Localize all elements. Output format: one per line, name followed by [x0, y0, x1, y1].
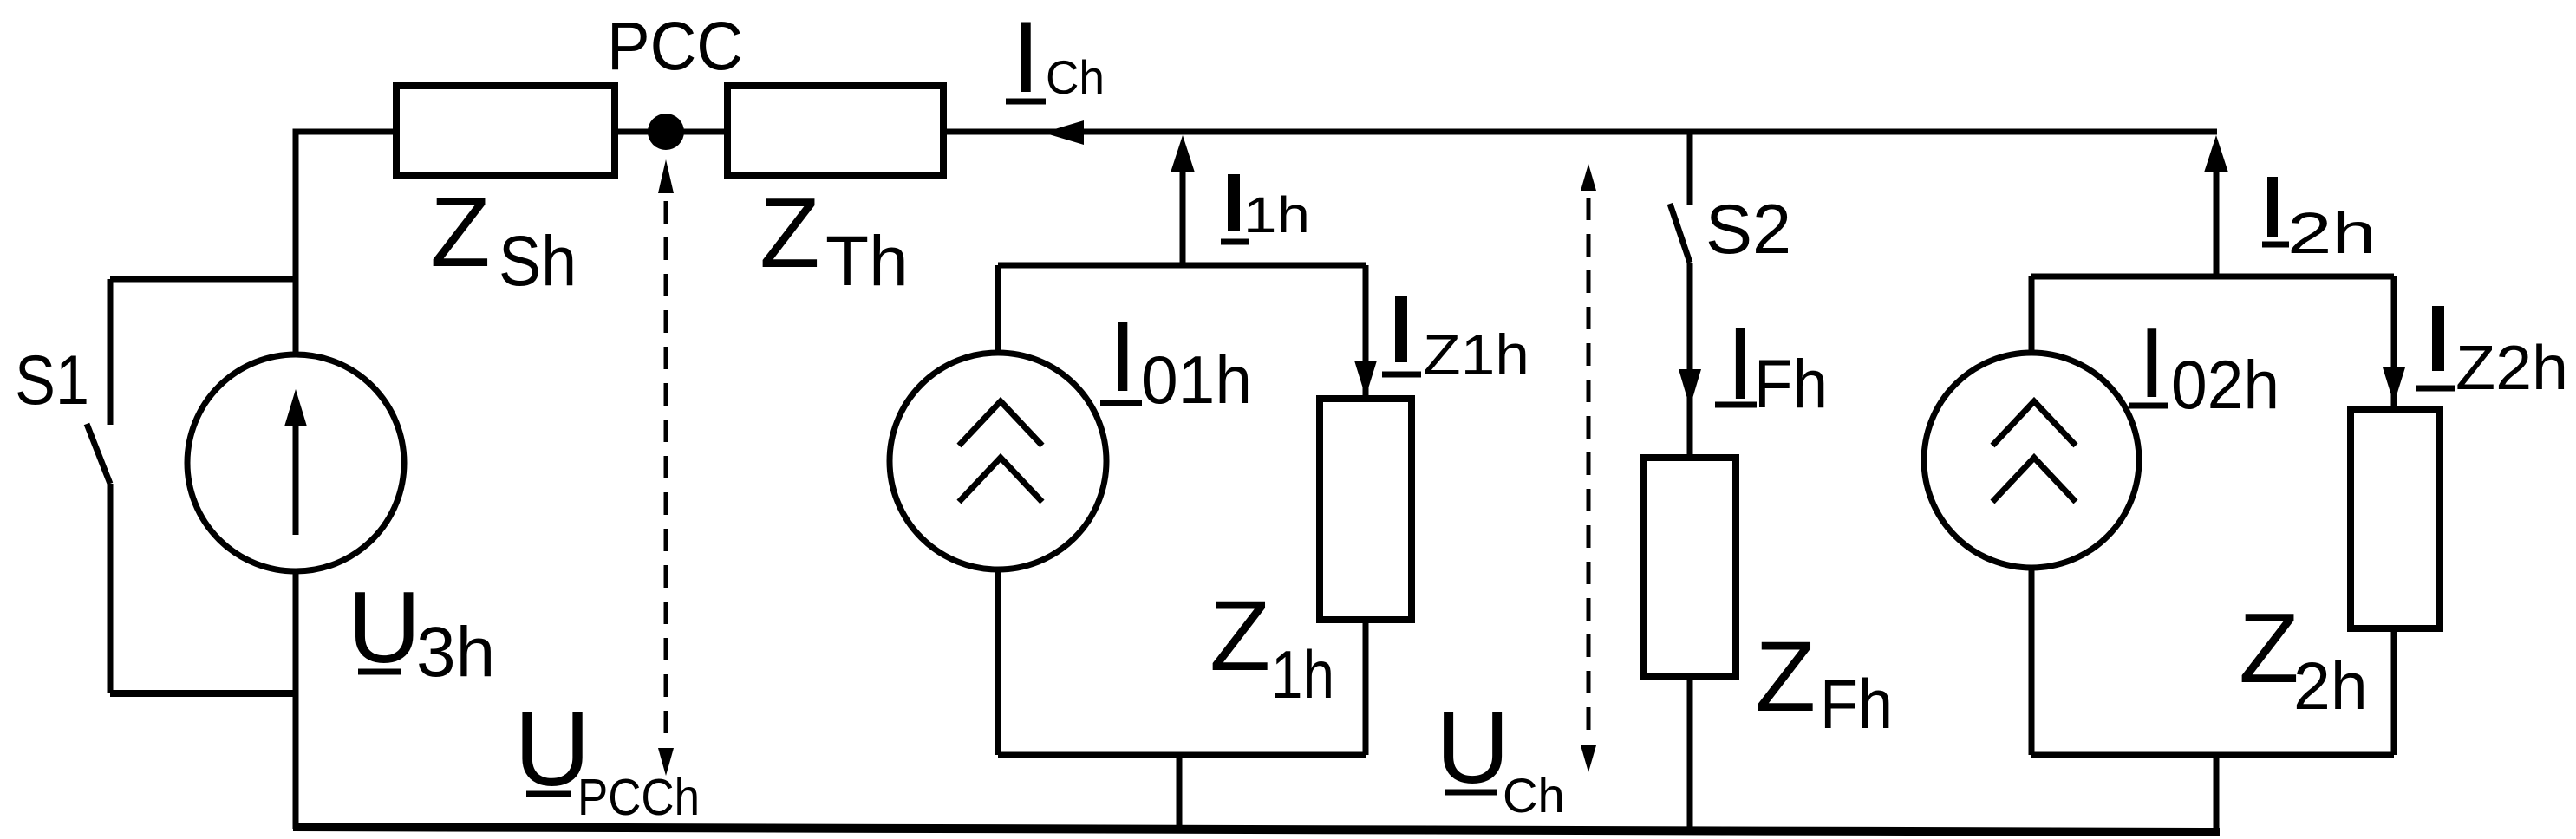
- current arrow I_Z1h: [1354, 361, 1377, 397]
- label Z_2h: [2239, 594, 2368, 724]
- label I_Fh: [1715, 307, 1828, 422]
- svg-text:PCCh: PCCh: [577, 769, 700, 826]
- label Z_Sh: [430, 178, 577, 301]
- current source I_02h: [1924, 353, 2139, 568]
- svg-text:S1: S1: [15, 341, 89, 419]
- wire: load2 ground stem: [2214, 755, 2220, 829]
- impedance Z_2h: [2351, 409, 2440, 628]
- svg-text:Z1h: Z1h: [1423, 322, 1529, 387]
- svg-text:2h: 2h: [2293, 649, 2368, 724]
- wire: load1 bottom rail: [998, 752, 1366, 758]
- wire: I_01h source top stem: [995, 265, 1001, 355]
- label I_02h: [2129, 309, 2279, 423]
- wire: Z_Fh bottom stem: [1687, 677, 1693, 829]
- svg-text:3h: 3h: [416, 613, 495, 692]
- wire: top bus left segment: [296, 132, 396, 354]
- impedance Z_1h: [1320, 399, 1412, 620]
- wire: I_02h source bottom stem: [2029, 567, 2035, 755]
- svg-text:Z: Z: [1210, 581, 1270, 692]
- svg-text:1h: 1h: [1243, 187, 1310, 244]
- label Z_Fh: [1755, 621, 1893, 744]
- current arrow I_1h: [1171, 135, 1195, 172]
- label Z_Th: [760, 179, 909, 301]
- voltage arrow U_Ch: [1581, 164, 1596, 772]
- svg-text:I: I: [1012, 0, 1040, 114]
- svg-text:Fh: Fh: [1820, 666, 1893, 744]
- label U_PCCh: [514, 690, 700, 826]
- wire: I_02h source top stem: [2029, 276, 2035, 355]
- voltage arrow U_PCCh: [658, 159, 674, 776]
- svg-text:I: I: [2138, 309, 2166, 419]
- wire: Z_1h top stem: [1363, 265, 1369, 400]
- svg-text:1h: 1h: [1271, 636, 1334, 712]
- svg-text:Z: Z: [2239, 594, 2299, 704]
- svg-text:Z: Z: [760, 179, 820, 289]
- svg-text:Ch: Ch: [1046, 50, 1105, 104]
- current arrow I_Fh: [1679, 369, 1701, 407]
- svg-text:Z: Z: [1755, 621, 1816, 732]
- impedance Z_Fh: [1644, 458, 1736, 677]
- svg-text:01h: 01h: [1141, 341, 1252, 418]
- label I_Z1h: [1382, 296, 1529, 387]
- svg-text:S2: S2: [1705, 191, 1791, 269]
- label Z_1h: [1210, 581, 1334, 712]
- current source I_01h: [890, 353, 1106, 569]
- wire: source top stem: [293, 132, 299, 354]
- label I_1h: [1221, 174, 1310, 244]
- wire: top bus right segment: [943, 129, 2217, 135]
- wire: load1 top stem: [1180, 165, 1186, 265]
- svg-text:02h: 02h: [2171, 346, 2279, 423]
- wire: I_01h source bottom stem: [995, 568, 1001, 755]
- wire: bottom bus: [293, 827, 2220, 832]
- label I_01h: [1100, 302, 1252, 418]
- wire: load1 ground stem: [1177, 755, 1183, 829]
- svg-text:Ch: Ch: [1503, 768, 1565, 823]
- svg-text:Z2h: Z2h: [2455, 334, 2568, 403]
- wire: source bottom stem: [293, 571, 299, 829]
- label I_2h: [2262, 177, 2377, 266]
- svg-text:PCC: PCC: [607, 7, 743, 84]
- wire: load2 bottom rail: [2031, 752, 2394, 758]
- svg-text:Z: Z: [430, 178, 491, 288]
- svg-text:I: I: [1109, 302, 1137, 413]
- resistor Z_Sh: [396, 86, 615, 176]
- wire: Z_2h top stem: [2391, 276, 2397, 411]
- current arrow I_Z2h: [2383, 367, 2405, 404]
- wire: Z_2h bottom stem: [2391, 628, 2397, 755]
- wire: load1 top rail: [998, 263, 1366, 269]
- label U_3h: [348, 570, 495, 692]
- svg-text:2h: 2h: [2287, 201, 2377, 266]
- svg-text:Sh: Sh: [499, 222, 577, 301]
- svg-text:U: U: [1436, 691, 1510, 805]
- wire: load2 top stem: [2214, 165, 2220, 276]
- switch S2: [1670, 132, 1690, 458]
- source U_3h: [187, 354, 404, 571]
- current arrow I_Ch: [1043, 120, 1084, 145]
- wire: load2 top rail: [2031, 274, 2394, 280]
- svg-text:Th: Th: [825, 222, 909, 301]
- node PCC: [648, 114, 684, 150]
- svg-text:U: U: [348, 570, 421, 684]
- label I_Z2h: [2416, 306, 2568, 403]
- wire: top bus between Z_Sh and Z_Th: [615, 129, 727, 135]
- switch S1: [87, 279, 296, 693]
- label I_Ch: [1006, 0, 1105, 114]
- svg-text:Fh: Fh: [1754, 345, 1828, 422]
- current arrow I_2h: [2204, 135, 2228, 172]
- wire: Z_1h bottom stem: [1363, 620, 1369, 755]
- label U_Ch: [1436, 691, 1565, 823]
- resistor Z_Th: [727, 86, 943, 176]
